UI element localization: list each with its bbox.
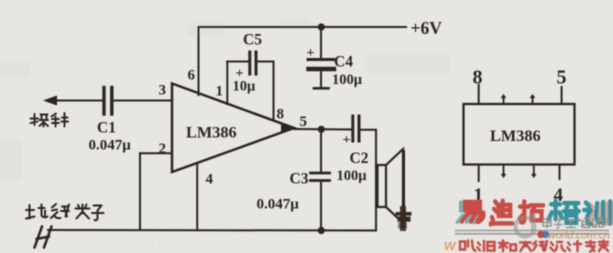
IC pin 8 lead [478, 84, 480, 104]
char yi (red) [462, 202, 484, 222]
IC package U2 body rectangle [464, 104, 575, 165]
dark smudge blob near speaker [396, 206, 412, 231]
wire: pin 8 vertical down to op-amp [273, 62, 275, 121]
wire: vertical from C2 to ground rail (speaker feed) [375, 130, 377, 231]
char pei (teal) [549, 201, 579, 223]
pin [478, 241, 495, 251]
char xun (teal) [584, 201, 610, 224]
wire: C3 lower lead to ground rail [320, 182, 322, 231]
svg-text:10μ: 10μ [233, 79, 257, 95]
watermark red slogan she pin he tian xian she ji zhuan jia [460, 241, 608, 252]
svg-text:+6V: +6V [411, 18, 443, 38]
watermark grey double underline [455, 231, 609, 234]
svg-text:0.047μ: 0.047μ [257, 197, 300, 213]
wire: pin 6 vertical from top rail to op-amp [198, 27, 200, 95]
char di (red) [491, 201, 513, 225]
capacitor C4 bottom plate [309, 67, 335, 71]
speaker LS1 body [378, 165, 387, 207]
watermark big brand characters yi di tuo pei xun [462, 201, 611, 225]
label Chinese: tan zhen (probe) [31, 113, 69, 127]
junction dot at pin5 wire / C3 [318, 126, 325, 133]
junction dot at +6V rail / C4 [318, 23, 325, 30]
ground clamp symbol [35, 227, 52, 248]
svg-text:1: 1 [216, 84, 224, 100]
watermark grey logo circle d [516, 213, 536, 237]
wire: pin 2 vertical to ground rail [139, 153, 141, 230]
junction dot at ground rail / C3 [318, 227, 325, 234]
wire: pin 5 output [294, 128, 351, 131]
xian [534, 241, 548, 251]
wire: C5 right lead [258, 61, 274, 63]
capacitor C4 top plate [308, 58, 334, 61]
wire: C1 to pin 3 [114, 100, 172, 102]
wire: C4 top lead from rail [320, 27, 322, 58]
svg-text:5: 5 [300, 114, 308, 130]
capacitor C3 plates [311, 173, 330, 181]
capacitor C2 plates [353, 116, 359, 141]
svg-text:C2: C2 [350, 150, 369, 167]
capacitor C5 plates [250, 52, 256, 74]
svg-text:8: 8 [473, 67, 483, 89]
zhuan [586, 241, 595, 252]
op-amp U1 LM386 triangle [172, 84, 294, 173]
svg-text:C5: C5 [243, 32, 262, 49]
IC bottom middle pin stubs [502, 165, 536, 177]
IC pin 5 lead [561, 86, 563, 104]
speaker horn right edge thick [402, 150, 405, 229]
wire: +6V top rail [199, 26, 407, 28]
wire: ground bottom rail [48, 229, 376, 232]
svg-text:100μ: 100μ [332, 72, 363, 88]
svg-text:w: w [444, 237, 457, 253]
svg-text:4: 4 [206, 172, 214, 188]
watermark grey text dian zi gong cheng shi jie [543, 218, 610, 229]
svg-text:LM386: LM386 [490, 126, 541, 145]
svg-text:C4: C4 [334, 54, 353, 71]
svg-text:3: 3 [159, 83, 167, 99]
faint scan mottling patches [0, 18, 450, 180]
wire: C3 upper lead [320, 129, 322, 172]
ji [568, 241, 582, 251]
capacitor C1 plates [104, 88, 112, 115]
svg-text:5: 5 [557, 67, 567, 89]
he [499, 241, 516, 252]
watermark small e logos [537, 231, 545, 239]
speaker LS1 horn [386, 149, 403, 223]
svg-text:+: + [307, 46, 315, 61]
char tuo (red) [519, 201, 543, 222]
wire: pin 1 vertical up to C5 [226, 62, 228, 105]
wire: pin 2 horizontal [140, 152, 172, 154]
wire: pin 4 vertical to ground rail [196, 163, 198, 230]
svg-text:8: 8 [277, 107, 285, 123]
IC pin 1 lead [478, 165, 480, 183]
wire: C2 right lead [361, 129, 377, 131]
she [460, 241, 476, 252]
svg-text:C1: C1 [97, 120, 116, 137]
she [551, 242, 566, 251]
IC pin 4 lead [559, 165, 561, 181]
IC top middle pin stubs [502, 96, 535, 105]
op-amp apex ink bleed [281, 123, 295, 133]
probe arrow head [43, 96, 57, 106]
svg-text:2: 2 [159, 141, 167, 157]
svg-text:6: 6 [188, 68, 196, 84]
wire: C5 left lead [227, 61, 248, 63]
svg-text:C3: C3 [290, 171, 309, 188]
watermark big brand characters red fringe on teal chars [588, 203, 613, 226]
wire: probe lead into C1 [53, 100, 102, 102]
wire: C4 bottom stub [320, 72, 322, 88]
watermark big brand characters teal fringe copy [457, 203, 479, 223]
faint ghost watermark under ground rail [84, 241, 409, 253]
svg-text:+: + [343, 133, 351, 148]
wire: C4 stub end bar [314, 87, 329, 90]
svg-text:LM386: LM386 [186, 123, 237, 142]
svg-text:100μ: 100μ [337, 168, 368, 184]
tian [520, 243, 531, 252]
jia [599, 241, 608, 252]
svg-text:world.com.cn: world.com.cn [548, 230, 610, 242]
svg-text:www.eedt.net eedt www.eedt.n: www.eedt.net eedt www.eedt.net eedt [84, 241, 409, 253]
svg-text:0.047μ: 0.047μ [89, 138, 132, 154]
label Chinese: di xian jia zi (ground wire clamp) [26, 204, 104, 220]
